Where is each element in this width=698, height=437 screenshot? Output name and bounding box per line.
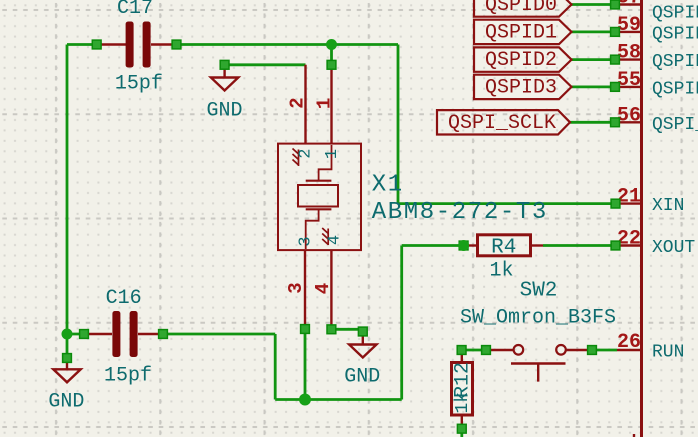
svg-text:C16: C16 bbox=[106, 287, 142, 310]
capacitor C16 bbox=[84, 311, 163, 357]
pin end square GND bottom left bbox=[63, 354, 72, 363]
svg-text:26: 26 bbox=[617, 331, 641, 354]
wire C16 left to junction bbox=[67, 333, 84, 336]
IC pin 59 bbox=[615, 31, 640, 33]
IC pin stub bottom right bbox=[633, 434, 635, 437]
svg-text:15pf: 15pf bbox=[104, 364, 152, 387]
junction node A top bbox=[326, 39, 337, 50]
svg-text:GND: GND bbox=[48, 391, 84, 414]
wire node A to crystal pin 1 bbox=[330, 45, 333, 65]
wire SW2 to pin 26 bbox=[596, 349, 617, 352]
svg-text:57: 57 bbox=[617, 0, 641, 10]
hierarchical label QSPID2 bbox=[474, 47, 572, 72]
svg-text:QSPID0: QSPID0 bbox=[652, 4, 698, 24]
svg-text:1: 1 bbox=[323, 149, 342, 159]
svg-text:3: 3 bbox=[285, 282, 307, 293]
svg-text:QSPID3: QSPID3 bbox=[485, 77, 557, 100]
svg-text:XIN: XIN bbox=[652, 196, 684, 216]
svg-text:3: 3 bbox=[297, 236, 316, 246]
wire junction to GND bottom left bbox=[66, 334, 69, 358]
svg-text:QSPI_SCLK: QSPI_SCLK bbox=[448, 112, 556, 135]
svg-text:XOUT: XOUT bbox=[652, 238, 695, 258]
wire GND top to crystal pin 2 bbox=[225, 63, 306, 66]
svg-text:QSPID1: QSPID1 bbox=[652, 24, 698, 44]
wire R4 right to XOUT bbox=[543, 244, 616, 247]
IC pin 56 bbox=[615, 121, 640, 123]
svg-text:1: 1 bbox=[314, 98, 336, 109]
pin end square C16 left bbox=[80, 330, 89, 339]
hierarchical label QSPI_SCLK bbox=[437, 110, 570, 135]
svg-text:R4: R4 bbox=[491, 237, 516, 260]
svg-text:QSPID2: QSPID2 bbox=[485, 49, 557, 72]
svg-text:GND: GND bbox=[344, 366, 380, 389]
pin end square SW2 left bbox=[482, 346, 491, 355]
wire top horizontal C17 to node A bbox=[177, 43, 399, 46]
wire R12 bottom stub bbox=[460, 429, 463, 437]
wire bottom horizontal bbox=[275, 398, 402, 401]
wire XIN horizontal bbox=[398, 202, 616, 205]
pin end square pin 57 bbox=[611, 0, 620, 9]
junction C16 GND node bbox=[62, 329, 73, 340]
svg-text:56: 56 bbox=[617, 104, 641, 127]
pin end square SW2 right bbox=[588, 346, 597, 355]
hierarchical label QSPID0 bbox=[474, 0, 572, 17]
switch SW2 bbox=[486, 345, 592, 382]
wire to R4 left bbox=[402, 244, 464, 247]
IC pin 58 bbox=[615, 58, 640, 60]
svg-text:ABM8-272-T3: ABM8-272-T3 bbox=[372, 199, 548, 226]
svg-text:SW2: SW2 bbox=[520, 280, 558, 303]
wire crystal pin 3 down bbox=[304, 329, 307, 400]
resistor R4 bbox=[464, 235, 543, 256]
svg-text:1k: 1k bbox=[490, 260, 514, 283]
IC pin 26 RUN bbox=[617, 349, 640, 351]
pin end square GND top bbox=[220, 60, 229, 69]
pin end square XOUT bbox=[611, 241, 620, 250]
pin end square R12 top bbox=[457, 346, 466, 355]
pin end square crystal pin 4 bbox=[327, 325, 336, 334]
svg-text:QSPID0: QSPID0 bbox=[485, 0, 557, 17]
IC body left edge bbox=[640, 0, 643, 437]
IC pin 21 XIN bbox=[616, 202, 641, 204]
IC pin 22 XOUT bbox=[616, 244, 641, 246]
pin end square C17 left bbox=[92, 40, 101, 49]
crystal X1 pin 4 wire bbox=[330, 250, 332, 329]
svg-text:59: 59 bbox=[617, 14, 641, 37]
wire QSPI_SCLK label to pin 56 bbox=[570, 121, 615, 124]
svg-text:2: 2 bbox=[287, 97, 309, 108]
pin end square C17 right bbox=[172, 40, 181, 49]
resistor R12 bbox=[452, 351, 473, 428]
junction R4 left node bbox=[458, 240, 469, 251]
wire crystal pin 4 to GND mid bbox=[331, 329, 362, 331]
crystal X1 body bbox=[278, 144, 361, 251]
wire QSPID0 label to pin 57 bbox=[572, 3, 616, 6]
svg-text:C17: C17 bbox=[117, 0, 153, 20]
ground symbol mid (near crystal pin 4) bbox=[349, 331, 376, 358]
pin end square XIN bbox=[611, 199, 620, 208]
svg-text:4: 4 bbox=[312, 283, 334, 294]
wire vertical up to R4 bbox=[400, 246, 403, 400]
svg-text:SW_Omron_B3FS: SW_Omron_B3FS bbox=[460, 306, 616, 329]
wire C16 right run bbox=[163, 333, 275, 336]
capacitor C17 bbox=[97, 22, 177, 68]
svg-text:58: 58 bbox=[617, 42, 641, 65]
wire vertical C16 branch down bbox=[274, 334, 277, 400]
svg-text:15pf: 15pf bbox=[115, 72, 163, 95]
ground symbol bottom left bbox=[53, 358, 80, 382]
IC pin 57 bbox=[615, 3, 640, 5]
svg-text:QSPI_SCLK: QSPI_SCLK bbox=[652, 115, 698, 135]
wire R12 top to SW2 bbox=[462, 349, 486, 352]
svg-text:X1: X1 bbox=[372, 172, 404, 199]
pin end square pin 55 bbox=[611, 83, 620, 92]
svg-text:QSPID2: QSPID2 bbox=[652, 52, 698, 72]
junction bottom crystal pin 3 node bbox=[299, 394, 311, 406]
wire left vertical bbox=[66, 45, 69, 335]
hierarchical label QSPID3 bbox=[474, 75, 572, 100]
pin end square C16 right bbox=[159, 330, 168, 339]
svg-text:1k: 1k bbox=[453, 392, 473, 414]
svg-text:QSPID1: QSPID1 bbox=[485, 22, 557, 45]
pin end square pin 58 bbox=[611, 55, 620, 64]
pin end square pin 59 bbox=[611, 28, 620, 37]
ground symbol top (near crystal pin 2) bbox=[211, 65, 238, 91]
svg-text:QSPID3: QSPID3 bbox=[652, 79, 698, 99]
wire top horizontal left of C17 bbox=[67, 43, 97, 46]
hierarchical label QSPID1 bbox=[474, 20, 572, 45]
pin end square pin 56 bbox=[611, 118, 620, 127]
svg-text:4: 4 bbox=[325, 235, 344, 245]
svg-text:2: 2 bbox=[297, 148, 316, 158]
crystal X1 pin 2 wire bbox=[304, 65, 306, 144]
crystal X1 pin 1 wire bbox=[330, 65, 332, 144]
crystal X1 pin 3 wire bbox=[304, 250, 306, 329]
pin end square crystal pin 1 bbox=[327, 60, 336, 69]
wire QSPID1 label to pin 59 bbox=[572, 30, 616, 33]
wire QSPID3 label to pin 55 bbox=[572, 86, 616, 89]
pin end square GND mid bbox=[358, 327, 367, 336]
svg-text:RUN: RUN bbox=[652, 342, 684, 362]
wire QSPID2 label to pin 58 bbox=[572, 58, 616, 61]
IC pin 55 bbox=[615, 86, 640, 88]
pin end square R4 left bbox=[459, 241, 468, 250]
pin end square crystal pin 3 bbox=[301, 325, 310, 334]
svg-text:55: 55 bbox=[617, 69, 641, 92]
pin end square R12 bottom bbox=[457, 424, 466, 433]
svg-text:GND: GND bbox=[207, 99, 243, 122]
wire XIN vertical drop bbox=[397, 45, 400, 204]
